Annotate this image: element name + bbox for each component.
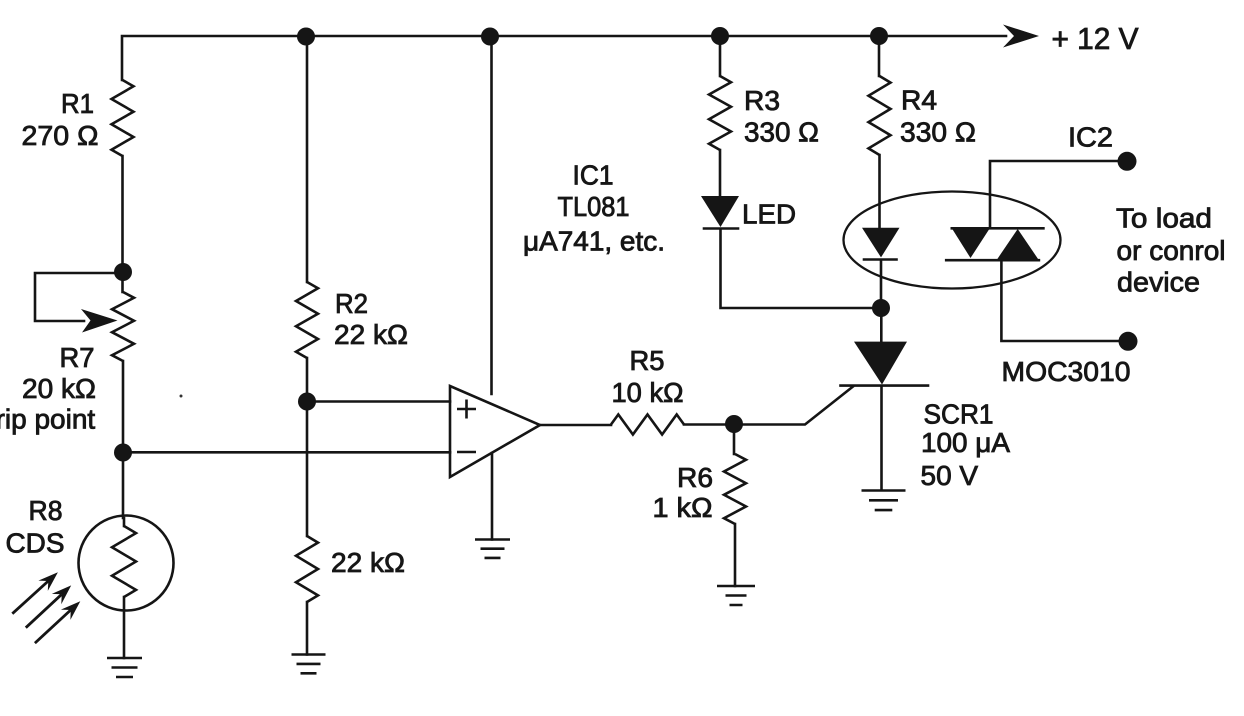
svg-text:or conrol: or conrol (1117, 235, 1226, 266)
svg-text:SCR1: SCR1 (924, 399, 994, 430)
svg-text:TL081: TL081 (558, 191, 630, 222)
svg-text:μA741, etc.: μA741, etc. (523, 226, 665, 257)
svg-text:330 Ω: 330 Ω (744, 117, 819, 148)
svg-text:22 kΩ: 22 kΩ (334, 319, 408, 350)
svg-text:IC2: IC2 (1068, 122, 1113, 153)
svg-text:R3: R3 (744, 85, 780, 116)
svg-text:20 kΩ: 20 kΩ (22, 373, 96, 404)
svg-text:R6: R6 (677, 462, 713, 493)
svg-text:22 kΩ: 22 kΩ (331, 547, 405, 578)
svg-text:270 Ω: 270 Ω (22, 120, 99, 151)
svg-text:+ 12 V: + 12 V (1052, 21, 1139, 56)
svg-text:330 Ω: 330 Ω (900, 117, 976, 148)
svg-text:CDS: CDS (6, 528, 65, 559)
svg-text:Trip point: Trip point (0, 404, 95, 435)
svg-text:100 μA: 100 μA (921, 427, 1010, 458)
svg-text:IC1: IC1 (573, 160, 614, 191)
svg-text:To load: To load (1116, 203, 1212, 234)
svg-text:10 kΩ: 10 kΩ (612, 377, 684, 408)
svg-text:R4: R4 (901, 85, 937, 116)
svg-text:R2: R2 (335, 288, 368, 319)
svg-text:MOC3010: MOC3010 (1002, 356, 1131, 387)
svg-text:50 V: 50 V (921, 460, 979, 491)
svg-text:device: device (1117, 267, 1200, 298)
svg-text:LED: LED (742, 199, 796, 230)
svg-text:1 kΩ: 1 kΩ (653, 492, 713, 523)
svg-text:R5: R5 (630, 345, 665, 376)
svg-text:R8: R8 (29, 495, 63, 526)
svg-text:R7: R7 (60, 342, 95, 373)
svg-text:R1: R1 (61, 88, 94, 119)
